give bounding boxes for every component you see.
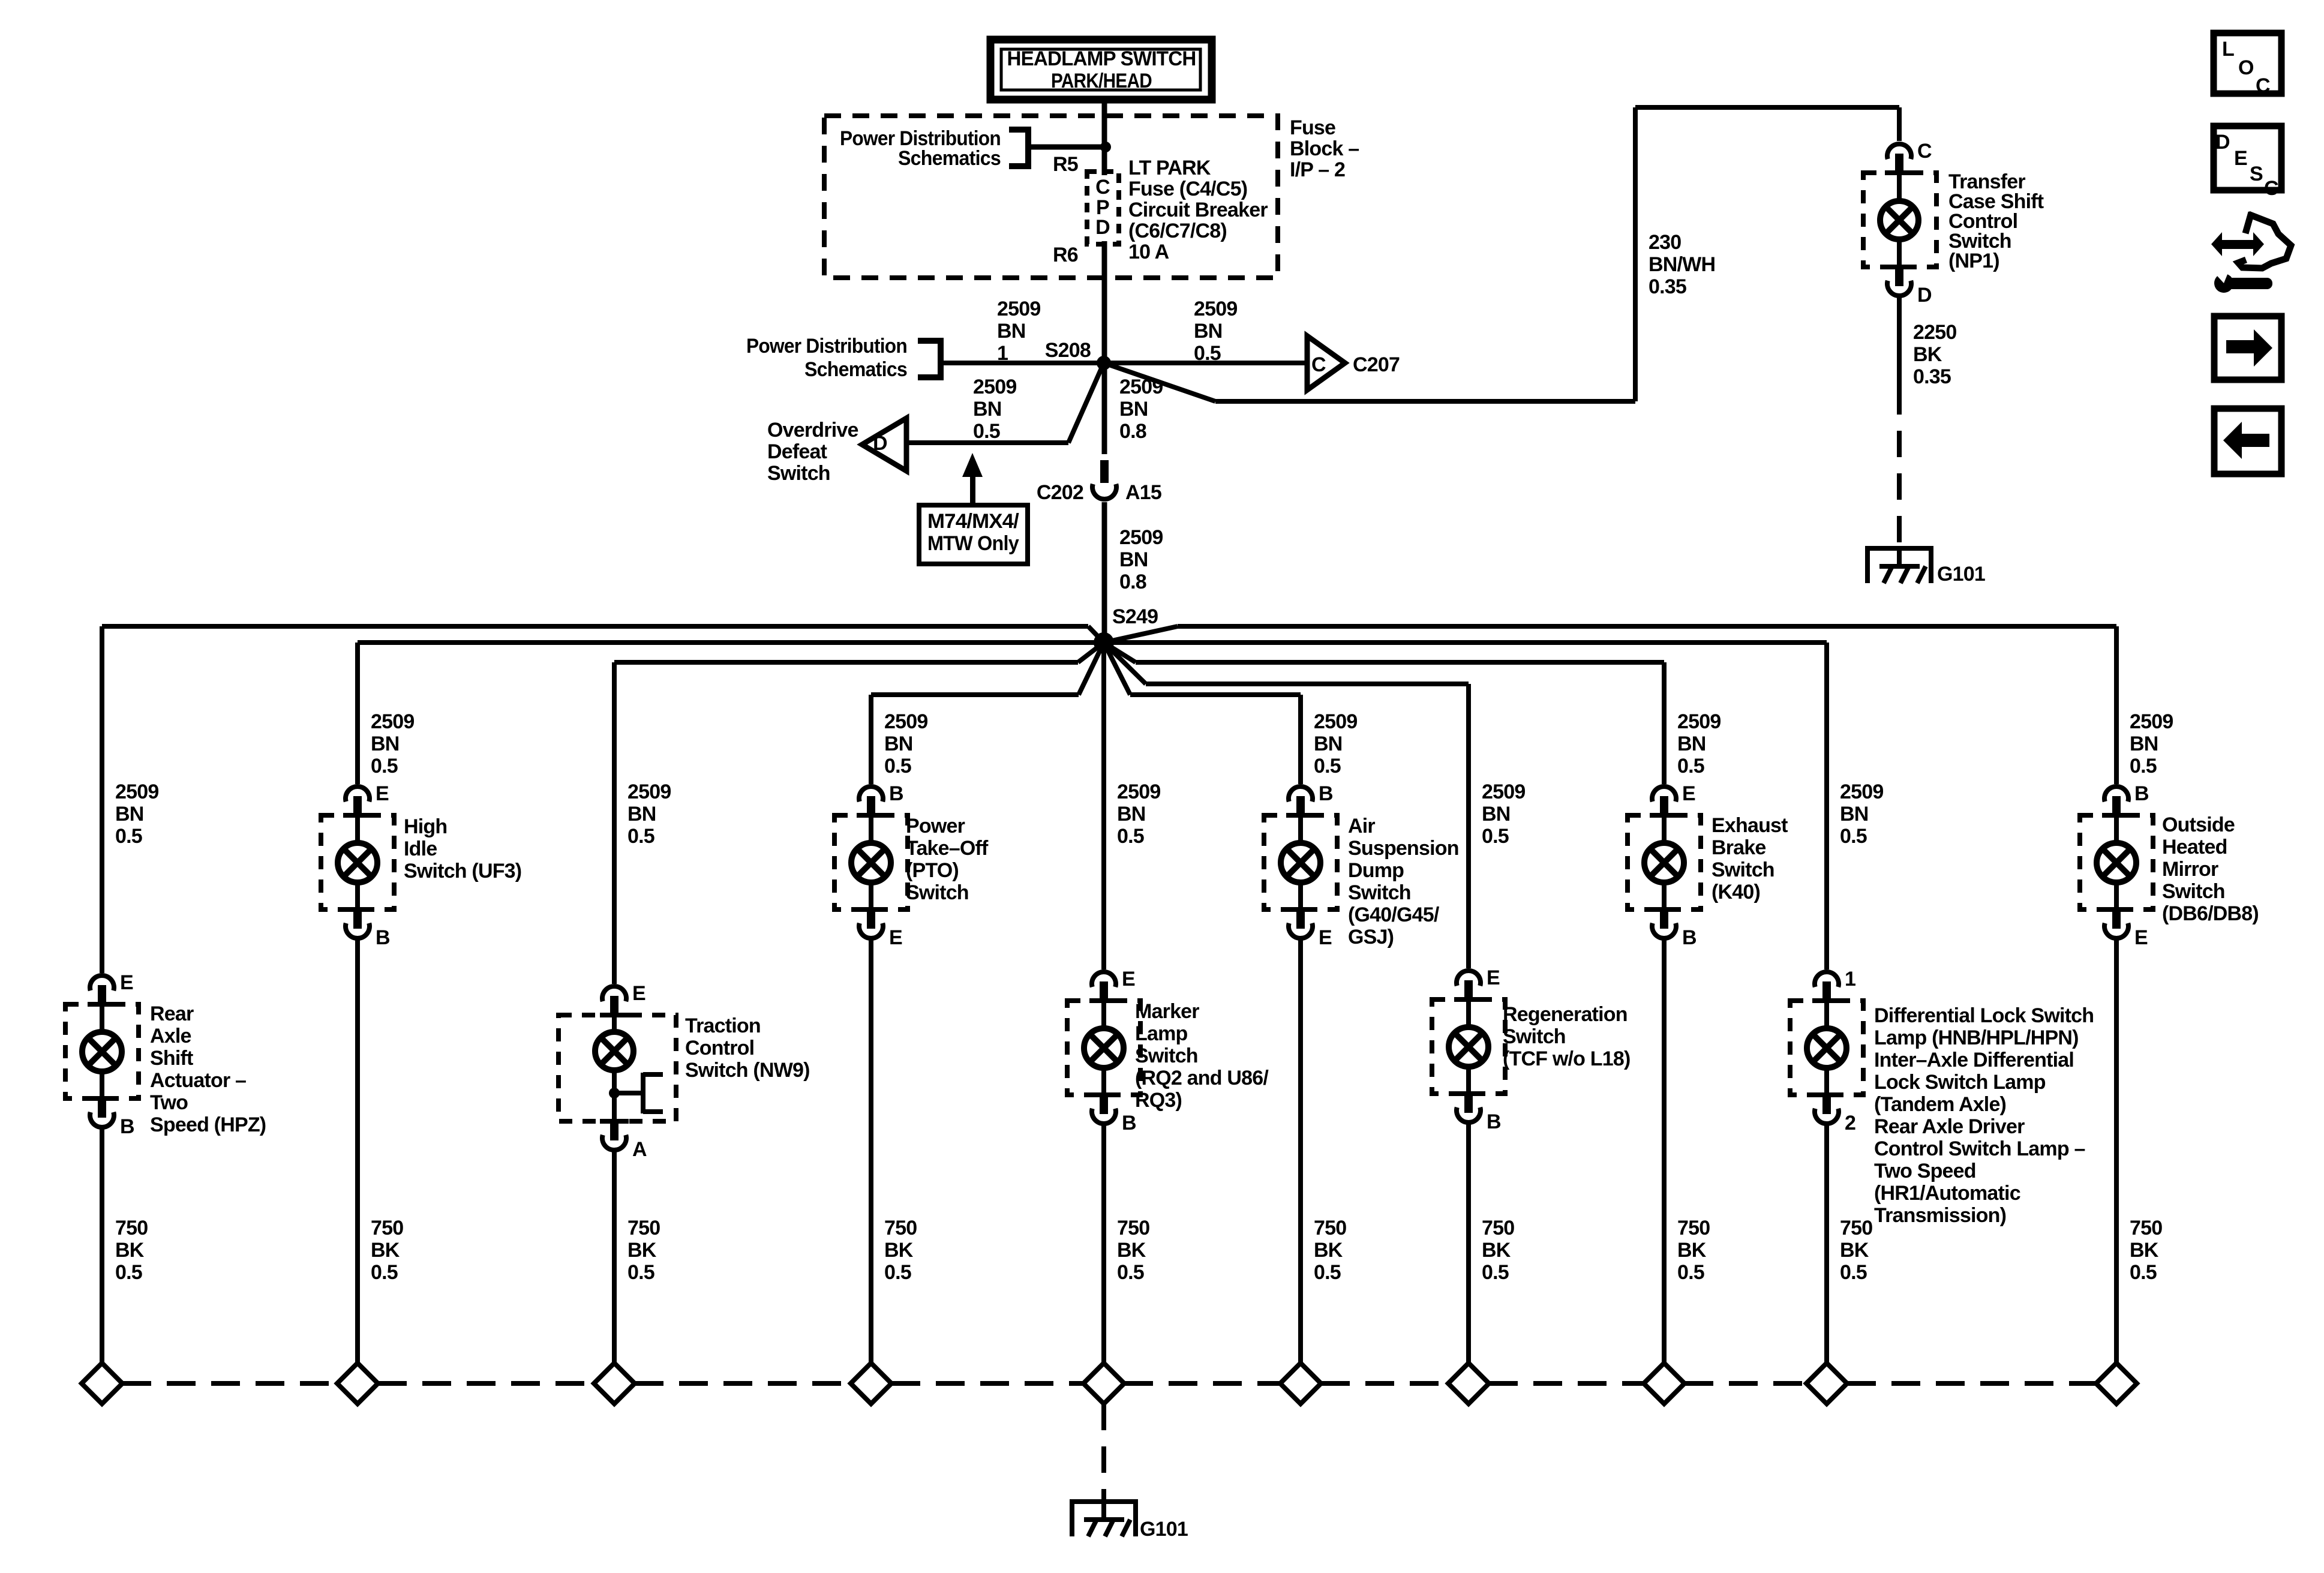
label 2509 BN 0.8 (above C202) xyxy=(1119,376,1163,443)
wire drop to exhaust brake switch xyxy=(1662,662,1667,784)
svg-text:0.5: 0.5 xyxy=(973,420,1000,443)
svg-text:BK: BK xyxy=(884,1239,914,1262)
svg-text:BN: BN xyxy=(1482,803,1511,825)
switch PTO - connector pin B xyxy=(857,782,903,818)
svg-text:BN: BN xyxy=(1119,548,1148,571)
wire to transfer case switch (vertical riser) xyxy=(1633,107,1638,401)
svg-text:PARK/HEAD: PARK/HEAD xyxy=(1051,70,1152,92)
wire 750 BK from mirror to ground bus xyxy=(2114,939,2119,1363)
svg-text:E: E xyxy=(1682,782,1695,805)
wire drop to rear axle shift actuator xyxy=(100,626,104,973)
svg-text:BK: BK xyxy=(2130,1239,2159,1262)
svg-text:Idle: Idle xyxy=(404,837,437,860)
wire from CPD fuse to splice S208 xyxy=(1102,241,1107,363)
label Overdrive Defeat Switch xyxy=(767,419,858,485)
svg-text:B: B xyxy=(1487,1110,1501,1133)
svg-text:(Tandem Axle): (Tandem Axle) xyxy=(1874,1093,2006,1116)
label 750 BK 0.5 (mirror) xyxy=(2130,1217,2162,1284)
svg-text:C202: C202 xyxy=(1037,481,1083,504)
label 2509 BN 0.5 (rear axle column) xyxy=(115,781,158,848)
switch Transfer Case Shift Control NP1 - connector pin D xyxy=(1885,265,1932,307)
label 750 BK 0.5 (marker lamp) xyxy=(1117,1217,1149,1284)
icon arrow right xyxy=(2214,316,2281,380)
svg-text:BK: BK xyxy=(1677,1239,1707,1262)
svg-text:0.5: 0.5 xyxy=(115,1261,142,1284)
wire diagonal from S208 to Overdrive Defeat Switch branch xyxy=(1068,363,1104,443)
wire drop to regeneration switch xyxy=(1466,684,1471,968)
svg-text:1: 1 xyxy=(1845,968,1855,990)
svg-text:Shift: Shift xyxy=(150,1047,193,1070)
svg-text:BK: BK xyxy=(371,1239,400,1262)
svg-text:(C6/C7/C8): (C6/C7/C8) xyxy=(1128,220,1227,242)
svg-text:HEADLAMP SWITCH: HEADLAMP SWITCH xyxy=(1007,47,1196,70)
label 750 BK 0.5 (exhaust brake) xyxy=(1677,1217,1710,1284)
ground bus dashed wire xyxy=(1847,1381,2096,1386)
switch Air Suspension Dump - indicator lamp xyxy=(1281,816,1320,908)
switch Marker Lamp RQ2/U86/RQ3 - dashed box xyxy=(1067,1001,1140,1095)
svg-text:S: S xyxy=(2250,163,2263,185)
switch Exhaust Brake K40 - label xyxy=(1712,814,1788,903)
svg-text:BN: BN xyxy=(627,803,656,825)
svg-text:Switch: Switch xyxy=(767,462,830,485)
svg-text:0.5: 0.5 xyxy=(371,755,398,778)
switch Differential Lock Lamp - indicator lamp xyxy=(1807,1002,1846,1094)
svg-text:E: E xyxy=(889,926,902,949)
splice S208 xyxy=(1097,356,1111,370)
wire 750 BK from high idle to ground bus xyxy=(355,939,360,1363)
switch Differential Lock Lamp - connector pin 2 xyxy=(1812,1092,1855,1134)
svg-text:0.5: 0.5 xyxy=(1677,1261,1704,1284)
svg-text:Inter–Axle Differential: Inter–Axle Differential xyxy=(1874,1049,2074,1071)
svg-text:C: C xyxy=(1311,353,1326,376)
label 2509 BN 0.5 (air suspension column) xyxy=(1314,710,1357,778)
svg-text:S249: S249 xyxy=(1112,605,1158,628)
switch High Idle UF3 - dashed box xyxy=(321,815,394,909)
svg-text:Mirror: Mirror xyxy=(2162,858,2218,881)
switch Traction Control NW9 - label xyxy=(685,1014,810,1082)
connector arrow C to C207 xyxy=(1307,336,1345,390)
svg-text:10 A: 10 A xyxy=(1128,241,1169,263)
svg-text:(TCF w/o L18): (TCF w/o L18) xyxy=(1503,1047,1630,1070)
label 230 BN/WH 0.35 xyxy=(1649,231,1715,298)
svg-text:Power Distribution: Power Distribution xyxy=(746,335,907,358)
svg-text:BN: BN xyxy=(1677,733,1706,755)
switch High Idle UF3 - indicator lamp xyxy=(338,816,377,908)
svg-text:BK: BK xyxy=(1314,1239,1343,1262)
label 2509 BN 0.5 (high idle column) xyxy=(371,710,414,778)
switch PTO - connector pin E xyxy=(857,907,902,949)
bus wire left bottom (to PTO column) xyxy=(871,643,1104,697)
svg-text:750: 750 xyxy=(1840,1217,1872,1239)
switch Exhaust Brake K40 - dashed box xyxy=(1628,815,1701,909)
svg-text:I/P – 2: I/P – 2 xyxy=(1290,158,1345,181)
bus wire left mid (to high idle column) xyxy=(358,640,1104,645)
bracket to Power Distribution Schematics (S208) xyxy=(918,338,944,380)
dashed wire from ground bus to G101 xyxy=(1101,1404,1106,1499)
svg-text:(NP1): (NP1) xyxy=(1948,250,1999,272)
ground bus dashed wire xyxy=(1489,1381,1644,1386)
wire drop to high idle switch xyxy=(355,643,360,784)
svg-text:B: B xyxy=(376,926,390,949)
svg-text:B: B xyxy=(889,782,903,805)
switch Traction Control NW9 - indicator lamp xyxy=(595,1016,633,1120)
switch Rear Axle Shift Actuator HPZ - connector pin B xyxy=(88,1096,134,1138)
label 750 BK 0.5 (high idle) xyxy=(371,1217,403,1284)
svg-text:BN: BN xyxy=(997,320,1026,343)
svg-text:RQ3): RQ3) xyxy=(1135,1089,1182,1112)
svg-text:2509: 2509 xyxy=(1314,710,1357,733)
dashed wire to G101 (right) xyxy=(1897,388,1902,546)
svg-text:Speed (HPZ): Speed (HPZ) xyxy=(150,1113,266,1136)
svg-text:750: 750 xyxy=(1677,1217,1710,1239)
svg-text:Actuator –: Actuator – xyxy=(150,1069,246,1092)
wire 750 BK from traction to ground bus xyxy=(612,1151,617,1363)
label 750 BK 0.5 (air suspension) xyxy=(1314,1217,1346,1284)
wire drop to transfer case switch pin C xyxy=(1897,107,1902,141)
ground bus dashed wire xyxy=(1685,1381,1806,1386)
svg-text:E: E xyxy=(120,971,133,994)
wire to Overdrive Defeat Switch xyxy=(906,440,1068,445)
svg-text:Switch: Switch xyxy=(906,881,969,904)
svg-text:2509: 2509 xyxy=(884,710,927,733)
switch Outside Heated Mirror DB6/DB8 - label xyxy=(2162,813,2259,925)
svg-text:Suspension: Suspension xyxy=(1348,837,1459,860)
label 2509 BN 0.5 (marker lamp column) xyxy=(1117,781,1160,848)
label 2509 BN 0.5 (differential lock column) xyxy=(1840,781,1883,848)
svg-text:750: 750 xyxy=(2130,1217,2162,1239)
ground bus dashed wire xyxy=(1124,1381,1280,1386)
switch Regeneration TCF - dashed box xyxy=(1432,999,1505,1094)
svg-text:BN: BN xyxy=(884,733,913,755)
svg-text:0.5: 0.5 xyxy=(1117,1261,1144,1284)
wire drop to PTO switch xyxy=(869,695,873,784)
svg-text:Dump: Dump xyxy=(1348,859,1404,882)
svg-text:M74/MX4/: M74/MX4/ xyxy=(927,510,1019,533)
switch Outside Heated Mirror DB6/DB8 - dashed box xyxy=(2080,815,2153,909)
wire 750 BK from marker lamp to ground bus xyxy=(1101,1125,1106,1363)
bus wire right mid (to differential lock column) xyxy=(1104,640,1827,645)
switch Differential Lock Lamp - label xyxy=(1874,1004,2094,1227)
svg-text:C: C xyxy=(2264,177,2278,200)
arrow from M74 box to overdrive wire xyxy=(962,453,983,503)
svg-text:2509: 2509 xyxy=(973,376,1016,398)
svg-text:BK: BK xyxy=(627,1239,657,1262)
svg-text:0.5: 0.5 xyxy=(627,1261,654,1284)
svg-text:Switch: Switch xyxy=(1135,1044,1198,1067)
switch Transfer Case Shift Control NP1 - connector pin C xyxy=(1885,140,1932,175)
svg-text:0.8: 0.8 xyxy=(1119,420,1146,443)
svg-text:0.35: 0.35 xyxy=(1649,275,1686,298)
switch Regeneration TCF - connector pin B xyxy=(1454,1091,1501,1133)
splice diamond (marker lamp) xyxy=(1083,1363,1124,1404)
svg-text:BN/WH: BN/WH xyxy=(1649,253,1715,276)
bus wire right (to regeneration column) xyxy=(1104,643,1469,686)
svg-text:E: E xyxy=(376,782,389,805)
icon DESC xyxy=(2214,126,2281,200)
svg-text:D: D xyxy=(1095,216,1110,239)
wire to transfer case switch (top horizontal) xyxy=(1635,105,1899,110)
svg-text:Regeneration: Regeneration xyxy=(1503,1003,1628,1026)
switch Marker Lamp RQ2/U86/RQ3 - indicator lamp xyxy=(1084,1002,1124,1094)
svg-text:BN: BN xyxy=(1119,398,1148,421)
splice diamond (traction) xyxy=(594,1363,635,1404)
svg-text:0.5: 0.5 xyxy=(1482,825,1509,848)
svg-text:2509: 2509 xyxy=(997,298,1040,320)
ground bus dashed wire xyxy=(122,1381,337,1386)
svg-text:(HR1/Automatic: (HR1/Automatic xyxy=(1874,1182,2020,1205)
svg-text:Fuse: Fuse xyxy=(1290,116,1335,139)
svg-text:Rear: Rear xyxy=(150,1002,194,1025)
svg-text:Switch (UF3): Switch (UF3) xyxy=(404,860,521,882)
svg-text:D: D xyxy=(2215,131,2230,154)
svg-text:Switch: Switch xyxy=(1348,881,1411,904)
svg-text:BN: BN xyxy=(973,398,1002,421)
svg-text:E: E xyxy=(1122,968,1135,990)
bus wire right bottom (to air suspension column) xyxy=(1104,643,1301,697)
switch High Idle UF3 - connector pin B xyxy=(343,907,390,949)
label 750 BK 0.5 (rear axle) xyxy=(115,1217,148,1284)
switch Traction Control NW9 - dashed box xyxy=(559,1015,676,1121)
splice diamond (air suspension) xyxy=(1280,1363,1321,1404)
svg-text:Take–Off: Take–Off xyxy=(906,837,989,860)
splice S249 xyxy=(1094,632,1114,653)
switch PTO - dashed box xyxy=(834,815,908,909)
svg-text:BK: BK xyxy=(1840,1239,1869,1262)
svg-text:Lock Switch Lamp: Lock Switch Lamp xyxy=(1874,1071,2046,1094)
svg-text:GSJ): GSJ) xyxy=(1348,926,1394,948)
switch Exhaust Brake K40 - indicator lamp xyxy=(1644,816,1684,908)
svg-text:BN: BN xyxy=(1117,803,1146,825)
svg-text:Overdrive: Overdrive xyxy=(767,419,858,442)
label 2509 BN 0.5 (regeneration column) xyxy=(1482,781,1525,848)
switch Outside Heated Mirror DB6/DB8 - connector pin B xyxy=(2102,782,2149,818)
svg-text:Exhaust: Exhaust xyxy=(1712,814,1788,837)
wire from Power Distribution Schematics to R5 node xyxy=(1031,145,1104,150)
svg-text:B: B xyxy=(1319,782,1333,805)
label Power Distribution Schematics (fuse block) xyxy=(840,127,1001,170)
svg-text:D: D xyxy=(1917,284,1932,307)
label 2509 BN 0.5 (PTO column) xyxy=(884,710,927,778)
svg-text:2509: 2509 xyxy=(371,710,414,733)
switch High Idle UF3 - connector pin E xyxy=(343,782,389,818)
svg-text:E: E xyxy=(2234,147,2247,170)
svg-text:A: A xyxy=(632,1138,647,1161)
svg-text:BK: BK xyxy=(115,1239,145,1262)
switch Outside Heated Mirror DB6/DB8 - indicator lamp xyxy=(2097,816,2136,908)
svg-text:MTW Only: MTW Only xyxy=(927,532,1019,555)
label 2509 BN 1 xyxy=(997,298,1040,365)
svg-text:750: 750 xyxy=(371,1217,403,1239)
svg-text:Schematics: Schematics xyxy=(898,147,1001,170)
switch Air Suspension Dump - connector pin E xyxy=(1286,907,1332,949)
fuse block I/P-2 dashed box xyxy=(824,116,1278,278)
svg-text:Defeat: Defeat xyxy=(767,440,827,463)
svg-text:G101: G101 xyxy=(1937,563,1985,586)
svg-text:0.35: 0.35 xyxy=(1913,365,1951,388)
svg-text:Transmission): Transmission) xyxy=(1874,1204,2006,1227)
wire from S208 to connector C202 xyxy=(1102,363,1107,454)
wire from transfer case switch D to ground xyxy=(1897,297,1902,388)
svg-text:BK: BK xyxy=(1913,343,1942,366)
svg-text:BN: BN xyxy=(371,733,400,755)
svg-text:(K40): (K40) xyxy=(1712,881,1760,903)
switch PTO - indicator lamp xyxy=(851,816,891,908)
bracket to Power Distribution Schematics xyxy=(1009,127,1031,169)
svg-text:Switch: Switch xyxy=(1712,858,1774,881)
svg-text:Axle: Axle xyxy=(150,1025,191,1047)
svg-text:2509: 2509 xyxy=(1119,376,1163,398)
svg-text:Schematics: Schematics xyxy=(804,358,907,381)
switch Marker Lamp RQ2/U86/RQ3 - connector pin B xyxy=(1089,1092,1136,1134)
splice diamond (high idle) xyxy=(337,1363,378,1404)
switch Exhaust Brake K40 - connector pin B xyxy=(1650,907,1697,949)
ground bus dashed wire xyxy=(635,1381,851,1386)
svg-text:BN: BN xyxy=(115,803,144,825)
wire 750 BK from differential lock to ground bus xyxy=(1824,1125,1829,1363)
svg-text:R5: R5 xyxy=(1053,153,1078,176)
wire drop to air suspension dump switch xyxy=(1298,695,1303,784)
svg-text:B: B xyxy=(2134,782,2149,805)
svg-text:(RQ2 and U86/: (RQ2 and U86/ xyxy=(1135,1067,1269,1089)
svg-text:0.5: 0.5 xyxy=(1482,1261,1509,1284)
label 2509 BN 0.5 (mirror column) xyxy=(2130,710,2173,778)
svg-text:750: 750 xyxy=(1482,1217,1514,1239)
label 2509 BN 0.5 (exhaust brake column) xyxy=(1677,710,1721,778)
label 2509 BN 0.8 (below C202) xyxy=(1119,526,1163,593)
svg-text:2509: 2509 xyxy=(1677,710,1721,733)
svg-text:Lamp (HNB/HPL/HPN): Lamp (HNB/HPL/HPN) xyxy=(1874,1026,2079,1049)
icon LOC xyxy=(2214,33,2281,97)
svg-text:0.5: 0.5 xyxy=(371,1261,398,1284)
splice diamond (PTO) xyxy=(851,1363,891,1404)
splice diamond (differential lock) xyxy=(1806,1363,1847,1404)
label Power Distribution Schematics (S208) xyxy=(746,335,907,381)
svg-text:0.5: 0.5 xyxy=(115,825,142,848)
svg-text:Fuse (C4/C5): Fuse (C4/C5) xyxy=(1128,178,1247,200)
svg-text:B: B xyxy=(1122,1112,1136,1134)
svg-text:Switch: Switch xyxy=(2162,880,2225,903)
svg-text:750: 750 xyxy=(1117,1217,1149,1239)
svg-text:0.5: 0.5 xyxy=(1314,1261,1341,1284)
svg-text:Circuit Breaker: Circuit Breaker xyxy=(1128,199,1268,221)
svg-text:E: E xyxy=(2134,926,2148,949)
wire 750 BK from PTO to ground bus xyxy=(869,939,873,1363)
label 750 BK 0.5 (regeneration) xyxy=(1482,1217,1514,1284)
svg-text:0.5: 0.5 xyxy=(1840,825,1867,848)
switch Regeneration TCF - label xyxy=(1503,1003,1630,1070)
label Fuse Block - I/P - 2 xyxy=(1290,116,1359,181)
label LT PARK Fuse (C4/C5) Circuit Breaker (C6/C7/C8) 10 A xyxy=(1128,157,1268,263)
switch Outside Heated Mirror DB6/DB8 - connector pin E xyxy=(2102,907,2148,949)
svg-text:2509: 2509 xyxy=(627,781,671,803)
fuse CPD (LT PARK Fuse / Circuit Breaker) xyxy=(1087,172,1119,244)
svg-text:Lamp: Lamp xyxy=(1135,1022,1188,1045)
wire to transfer case switch (horizontal) xyxy=(1215,399,1635,404)
ground G101 (right) xyxy=(1865,546,1933,583)
bus wire left lower (to traction column) xyxy=(614,643,1104,665)
svg-text:BK: BK xyxy=(1117,1239,1146,1262)
svg-text:2509: 2509 xyxy=(115,781,158,803)
switch High Idle UF3 - label xyxy=(404,815,521,882)
switch Traction Control NW9 - connector pin A xyxy=(600,1119,647,1161)
svg-text:BN: BN xyxy=(1194,320,1223,343)
svg-text:2250: 2250 xyxy=(1913,321,1956,344)
svg-text:2509: 2509 xyxy=(1194,298,1237,320)
svg-text:Two: Two xyxy=(150,1091,188,1114)
svg-text:G101: G101 xyxy=(1140,1518,1188,1541)
label 2509 BN 0.5 (traction column) xyxy=(627,781,671,848)
svg-text:0.5: 0.5 xyxy=(2130,1261,2157,1284)
svg-text:0.8: 0.8 xyxy=(1119,571,1146,593)
svg-text:Air: Air xyxy=(1348,815,1375,837)
svg-text:Control Switch Lamp –: Control Switch Lamp – xyxy=(1874,1137,2085,1160)
svg-text:0.5: 0.5 xyxy=(884,755,911,778)
svg-text:Control: Control xyxy=(685,1037,754,1059)
switch Traction Control NW9 - connector pin E xyxy=(600,982,645,1017)
svg-text:C: C xyxy=(1095,176,1110,199)
wire drop to marker lamp switch xyxy=(1101,643,1106,969)
svg-text:230: 230 xyxy=(1649,231,1681,254)
ground G101 (bottom) xyxy=(1070,1499,1138,1536)
svg-text:B: B xyxy=(1682,926,1697,949)
svg-text:2509: 2509 xyxy=(1119,526,1163,549)
splice diamond (exhaust brake) xyxy=(1644,1363,1685,1404)
svg-text:High: High xyxy=(404,815,447,838)
label 2509 BN 0.5 (right of S208) xyxy=(1194,298,1237,365)
switch Traction Control NW9 - internal contact xyxy=(609,1072,663,1114)
svg-text:Marker: Marker xyxy=(1135,1000,1199,1023)
bus wire right top (to mirror column) xyxy=(1104,624,2116,643)
splice diamond (regeneration) xyxy=(1448,1363,1489,1404)
svg-text:(PTO): (PTO) xyxy=(906,859,959,882)
svg-text:S208: S208 xyxy=(1045,339,1091,362)
connector arrow D to Overdrive Defeat Switch xyxy=(862,418,906,471)
svg-text:750: 750 xyxy=(627,1217,660,1239)
svg-text:0.5: 0.5 xyxy=(884,1261,911,1284)
wire from HEADLAMP SWITCH to CPD fuse xyxy=(1102,103,1107,175)
switch Marker Lamp RQ2/U86/RQ3 - label xyxy=(1135,1000,1269,1112)
svg-text:Switch: Switch xyxy=(1503,1025,1566,1048)
icon adjust/repair (arrow, part outline, wrench) xyxy=(2211,212,2291,293)
label 750 BK 0.5 (traction) xyxy=(627,1217,660,1284)
svg-text:R6: R6 xyxy=(1053,244,1078,266)
label 2509 BN 0.5 (overdrive branch) xyxy=(973,376,1016,443)
wire drop to outside heated mirror switch xyxy=(2114,626,2119,784)
wire 750 BK from exhaust brake to ground bus xyxy=(1662,939,1667,1363)
switch Rear Axle Shift Actuator HPZ - indicator lamp xyxy=(82,1005,122,1097)
switch Differential Lock Lamp - connector pin 1 xyxy=(1812,968,1855,1003)
svg-text:E: E xyxy=(1487,966,1500,989)
switch Transfer Case Shift Control NP1 - indicator lamp xyxy=(1880,174,1918,266)
svg-text:2: 2 xyxy=(1845,1112,1855,1134)
switch Exhaust Brake K40 - connector pin E xyxy=(1650,782,1695,818)
icon arrow left xyxy=(2214,409,2281,474)
svg-text:2509: 2509 xyxy=(1117,781,1160,803)
bus wire left top (to rear axle column) xyxy=(102,624,1104,643)
svg-text:Brake: Brake xyxy=(1712,836,1766,859)
svg-text:Two Speed: Two Speed xyxy=(1874,1160,1976,1182)
ground bus dashed wire xyxy=(1321,1381,1448,1386)
svg-text:0.5: 0.5 xyxy=(1314,755,1341,778)
svg-text:Heated: Heated xyxy=(2162,836,2227,858)
switch Regeneration TCF - connector pin E xyxy=(1454,966,1500,1002)
svg-text:Block –: Block – xyxy=(1290,137,1359,160)
bus wire right lower (to exhaust brake column) xyxy=(1104,643,1664,665)
switch Air Suspension Dump - connector pin B xyxy=(1286,782,1333,818)
junction node on R5 feed xyxy=(1100,142,1111,152)
ground bus dashed wire xyxy=(378,1381,594,1386)
switch Rear Axle Shift Actuator HPZ - connector pin E xyxy=(88,971,133,1007)
